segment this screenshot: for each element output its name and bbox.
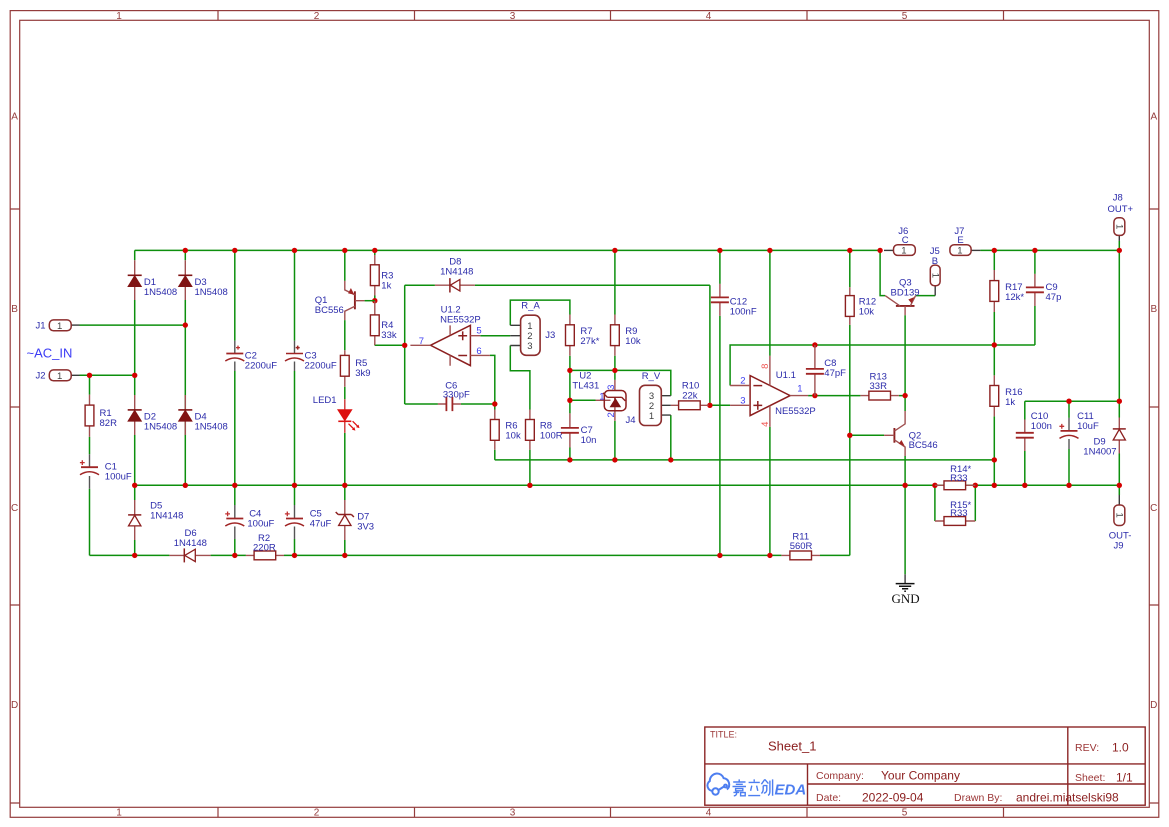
svg-text:1: 1: [116, 808, 122, 819]
svg-text:1: 1: [1114, 224, 1125, 229]
wire C12 column: [719, 250, 721, 555]
svg-text:6: 6: [476, 346, 481, 357]
wire Q1 R5 LED column: [344, 250, 346, 555]
wire R16 column: [993, 345, 995, 485]
svg-text:100uF: 100uF: [247, 519, 274, 530]
wire Q2 base row: [850, 434, 884, 436]
frame row labels right: [1150, 112, 1157, 712]
transistor Q3 BD139: [885, 277, 919, 315]
svg-text:3: 3: [606, 385, 617, 390]
svg-text:100n: 100n: [1031, 421, 1052, 432]
transistor Q1 BC556: [315, 281, 375, 320]
junction dots bottom rail: [132, 553, 137, 558]
capacitor C8 47pF: [806, 345, 846, 396]
wire +V top rail: [135, 249, 1120, 251]
svg-text:4: 4: [760, 422, 771, 427]
wire R4 to opamp out: [375, 344, 405, 346]
svg-text:REV:: REV:: [1075, 742, 1099, 754]
svg-text:~AC_IN: ~AC_IN: [27, 346, 73, 361]
resistor R6 10k: [490, 410, 521, 450]
wire U2 ref row: [570, 399, 596, 401]
capacitor C12 100nF: [711, 284, 757, 318]
svg-text:Sheet_1: Sheet_1: [768, 739, 816, 754]
resistor R7 27k*: [566, 315, 600, 356]
svg-text:Date:: Date:: [816, 792, 841, 804]
wire Q3 emitter to J5: [916, 295, 936, 297]
resistor R11 560R: [781, 531, 820, 559]
svg-text:2: 2: [740, 376, 745, 387]
wire Q3 base column: [904, 315, 906, 395]
svg-text:1: 1: [930, 273, 941, 278]
transistor Q2 BC546: [884, 411, 938, 456]
svg-text:2200uF: 2200uF: [305, 361, 337, 372]
capacitor C2 2200uF: [225, 341, 277, 372]
resistor R1 82R: [85, 395, 117, 437]
svg-text:22k: 22k: [682, 390, 698, 401]
connector J7: [950, 226, 981, 257]
svg-text:J8: J8: [1113, 192, 1123, 203]
svg-text:10uF: 10uF: [1077, 421, 1099, 432]
svg-text:J4: J4: [626, 415, 636, 426]
frame column labels top: [116, 11, 908, 22]
connector J5: [930, 246, 941, 296]
svg-text:10k: 10k: [859, 307, 875, 318]
svg-text:10k: 10k: [625, 336, 641, 347]
wire R9 U2 column: [614, 250, 616, 460]
frame column labels bottom: [116, 808, 908, 819]
EasyEDA logo: [707, 773, 729, 794]
wire R12 column: [849, 250, 851, 555]
svg-text:A: A: [11, 112, 18, 123]
svg-text:R_A: R_A: [521, 300, 540, 311]
svg-text:2200uF: 2200uF: [245, 361, 277, 372]
svg-text:47pF: 47pF: [824, 368, 846, 379]
svg-text:C: C: [902, 235, 909, 246]
wire -V bottom rail: [90, 554, 850, 556]
wire output mid rail: [135, 484, 1120, 486]
wire D3 D4 column: [184, 250, 186, 485]
svg-text:1: 1: [599, 391, 604, 402]
capacitor C1 100uF: [80, 454, 132, 489]
svg-text:R_V: R_V: [642, 371, 661, 382]
connector J9 OUT-: [1109, 495, 1132, 551]
svg-text:1N5408: 1N5408: [195, 421, 228, 432]
resistor R10 22k: [671, 381, 709, 410]
svg-text:1N5408: 1N5408: [144, 287, 177, 298]
svg-text:TITLE:: TITLE:: [710, 730, 737, 740]
diode D8 1N4148: [435, 256, 475, 292]
capacitor C5 47uF: [285, 505, 332, 539]
wire C10 C11 row: [1025, 400, 1120, 402]
resistor R13 33R: [860, 371, 899, 400]
svg-text:3V3: 3V3: [357, 521, 374, 532]
junction dot C6 R6: [492, 401, 497, 406]
wire U1.1 output row: [808, 395, 905, 397]
wire C3 C5 column: [294, 250, 296, 555]
resistor R3 1k: [370, 255, 393, 296]
connector J3 R_A: [510, 300, 555, 355]
wire U1.1 pin8: [769, 250, 771, 355]
capacitor C6 330pF: [438, 380, 470, 411]
svg-text:10k: 10k: [505, 430, 521, 441]
svg-text:3: 3: [527, 341, 532, 352]
resistor R2 220R: [246, 533, 284, 560]
svg-text:2: 2: [606, 412, 617, 417]
svg-text:R33: R33: [950, 508, 967, 519]
svg-text:3: 3: [510, 808, 516, 819]
svg-text:1: 1: [116, 11, 122, 22]
wire C11 column: [1068, 401, 1070, 485]
resistor R8 100R: [526, 410, 563, 450]
junction dots C10 C11 row: [1066, 399, 1071, 404]
junction dots mid rail: [132, 483, 137, 488]
capacitor C11 10uF: [1059, 411, 1099, 449]
wire C2 C4 column: [234, 250, 236, 555]
junction dots cathode row: [567, 368, 572, 373]
wire J9 stub: [1118, 485, 1120, 495]
junction dots U1.1 output: [812, 393, 817, 398]
svg-text:330pF: 330pF: [443, 390, 470, 401]
svg-text:D: D: [1150, 700, 1157, 711]
svg-text:2: 2: [314, 11, 320, 22]
svg-text:Your Company: Your Company: [881, 769, 960, 783]
svg-text:5: 5: [902, 808, 908, 819]
svg-text:1N5408: 1N5408: [195, 287, 228, 298]
svg-text:220R: 220R: [253, 542, 276, 553]
wire C9 column: [1034, 250, 1036, 345]
wire Q3 collector up: [880, 250, 885, 295]
svg-text:1k: 1k: [381, 281, 391, 292]
capacitor C10 100n: [1016, 411, 1052, 451]
svg-text:5: 5: [902, 11, 908, 22]
wire J8 D9 column: [1118, 241, 1120, 485]
wire R6 column: [494, 404, 496, 460]
wire J2 to bridge: [80, 374, 135, 376]
junction dot U2 ref: [567, 398, 572, 403]
svg-text:J2: J2: [36, 371, 46, 382]
frame row labels left: [11, 112, 18, 712]
diode D9 1N4007: [1083, 418, 1126, 458]
connector J1: [36, 320, 80, 332]
svg-text:C: C: [1150, 503, 1157, 514]
title block texts: [710, 730, 1133, 805]
wire C6 row: [405, 403, 495, 405]
junction dots AC input: [183, 322, 188, 327]
svg-text:LED1: LED1: [313, 395, 337, 406]
svg-text:47uF: 47uF: [310, 519, 332, 530]
svg-text:Sheet:: Sheet:: [1075, 772, 1105, 784]
svg-text:1: 1: [1114, 513, 1125, 518]
junction dots top rail: [183, 248, 188, 253]
wire D1 D2 D5 column: [134, 250, 136, 555]
diode D1 1N5408: [128, 260, 177, 300]
connector J2: [36, 370, 80, 382]
svg-text:33k: 33k: [381, 330, 397, 341]
svg-text:7: 7: [419, 336, 424, 347]
svg-text:1N4007: 1N4007: [1083, 446, 1116, 457]
svg-text:R33: R33: [950, 473, 967, 484]
svg-text:47p: 47p: [1046, 292, 1062, 303]
svg-text:33R: 33R: [870, 381, 888, 392]
resistor R5 3k9: [340, 350, 370, 387]
TL431 U2: [572, 371, 626, 421]
wire R14 R15 loop: [935, 485, 975, 521]
connector J8 OUT+: [1108, 192, 1134, 241]
svg-text:NE5532P: NE5532P: [775, 406, 816, 417]
wire C7 column: [569, 400, 571, 460]
capacitor C3 2200uF: [285, 341, 337, 372]
svg-text:B: B: [1150, 304, 1157, 315]
resistor R16 1k: [990, 375, 1023, 416]
junction dot Q1 base node: [372, 298, 377, 303]
svg-text:2022-09-04: 2022-09-04: [862, 791, 924, 805]
wire R3 R4 column: [374, 250, 376, 345]
diode D3 1N5408: [178, 260, 227, 300]
svg-text:1: 1: [57, 321, 62, 332]
wire J3 pin3 to R8: [510, 346, 530, 410]
wire R10 to opamp: [709, 404, 731, 406]
wire opamp pin6 down: [490, 355, 495, 404]
junction dot U1.2 output: [402, 343, 407, 348]
svg-text:1.0: 1.0: [1112, 741, 1129, 755]
svg-text:E: E: [957, 235, 963, 246]
svg-text:5: 5: [476, 326, 481, 337]
svg-text:U1.1: U1.1: [776, 370, 796, 381]
capacitor C9 47p: [1026, 274, 1061, 306]
op-amp U1.1 NE5532P: [730, 356, 816, 427]
wire J4 pin1 down: [670, 415, 672, 460]
svg-text:3k9: 3k9: [355, 368, 370, 379]
op-amp U1.2 NE5532P: [410, 305, 490, 366]
svg-text:Company:: Company:: [816, 770, 864, 782]
svg-text:2: 2: [314, 808, 320, 819]
svg-text:100nF: 100nF: [730, 307, 757, 318]
wire cathode node row: [570, 370, 671, 395]
svg-text:EDA: EDA: [775, 782, 807, 799]
diode D5 1N4148: [128, 500, 183, 540]
svg-text:3: 3: [510, 11, 516, 22]
svg-text:BD139: BD139: [891, 288, 920, 299]
svg-text:4: 4: [706, 808, 712, 819]
zener D7 3V3: [336, 500, 374, 540]
svg-text:1: 1: [57, 371, 62, 382]
junction dots feedback: [812, 342, 817, 347]
svg-text:OUT+: OUT+: [1108, 204, 1134, 215]
connector J4 R_V: [626, 371, 671, 426]
svg-text:100R: 100R: [540, 430, 563, 441]
svg-text:1: 1: [649, 411, 654, 422]
svg-text:1: 1: [901, 246, 906, 257]
svg-text:C: C: [11, 503, 18, 514]
resistor R12 10k: [845, 287, 876, 325]
svg-text:1N5408: 1N5408: [144, 421, 177, 432]
wire J3 pin1 loop: [510, 300, 570, 325]
diode D6 1N4148: [169, 528, 210, 563]
svg-text:GND: GND: [892, 591, 920, 606]
wire opamp pin5 to J3: [480, 335, 510, 337]
wire Q2 emitter to GND: [904, 456, 906, 574]
ground GND: [892, 574, 920, 606]
capacitor C4 100uF: [225, 505, 274, 539]
svg-text:NE5532P: NE5532P: [440, 314, 481, 325]
resistor R14* R33: [935, 464, 975, 490]
svg-text:J1: J1: [36, 321, 46, 332]
wire R1 C1 column: [89, 375, 91, 555]
LED1: [313, 395, 360, 433]
wire J1 to bridge: [80, 324, 186, 326]
wire C10 column: [1024, 401, 1026, 485]
resistor R15* R33: [935, 500, 975, 526]
junction dot Q2 base: [847, 433, 852, 438]
svg-text:10n: 10n: [581, 435, 597, 446]
svg-text:1N4148: 1N4148: [150, 511, 183, 522]
resistor R9 10k: [611, 315, 641, 356]
wire feedback loop U1.1: [730, 345, 1035, 386]
svg-text:D: D: [11, 700, 18, 711]
svg-text:BC546: BC546: [909, 440, 938, 451]
title block: [705, 727, 1145, 805]
svg-text:12k*: 12k*: [1005, 292, 1024, 303]
diode D2 1N5408: [128, 395, 177, 435]
capacitor C7 10n: [561, 413, 597, 447]
svg-text:B: B: [932, 256, 938, 267]
svg-text:B: B: [11, 304, 18, 315]
junction dot R10 out: [707, 403, 712, 408]
wire U1.1 pin4: [769, 427, 771, 556]
wire R8 bottom: [529, 450, 531, 486]
svg-text:TL431: TL431: [572, 380, 599, 391]
svg-text:1: 1: [957, 246, 962, 257]
svg-text:100uF: 100uF: [105, 472, 132, 483]
svg-text:Drawn By:: Drawn By:: [954, 792, 1002, 804]
diode D4 1N5408: [178, 395, 227, 435]
svg-text:BC556: BC556: [315, 305, 344, 316]
resistor R4 33k: [370, 301, 396, 345]
wire sense rail: [495, 459, 995, 461]
svg-text:J3: J3: [545, 330, 555, 341]
svg-text:J9: J9: [1114, 540, 1124, 551]
wire Q2 collector: [904, 396, 906, 411]
svg-text:1: 1: [797, 383, 802, 394]
wire R17 column: [993, 250, 995, 345]
resistor R17 12k*: [990, 270, 1025, 312]
svg-text:8: 8: [760, 364, 771, 369]
svg-text:1k: 1k: [1005, 397, 1015, 408]
svg-text:82R: 82R: [100, 418, 118, 429]
svg-text:A: A: [1150, 112, 1157, 123]
svg-text:andrei.miatselski98: andrei.miatselski98: [1016, 791, 1119, 805]
svg-text:1/1: 1/1: [1116, 771, 1133, 785]
wire D8 feedback branch: [405, 285, 710, 405]
svg-text:560R: 560R: [790, 541, 813, 552]
connector J6: [884, 226, 915, 257]
svg-text:4: 4: [706, 11, 712, 22]
svg-text:3: 3: [740, 395, 745, 406]
svg-text:1N4148: 1N4148: [440, 266, 473, 277]
junction dots sense rail: [567, 457, 572, 462]
svg-text:27k*: 27k*: [580, 336, 599, 347]
wire R7 column: [569, 356, 571, 401]
svg-text:1N4148: 1N4148: [174, 538, 207, 549]
